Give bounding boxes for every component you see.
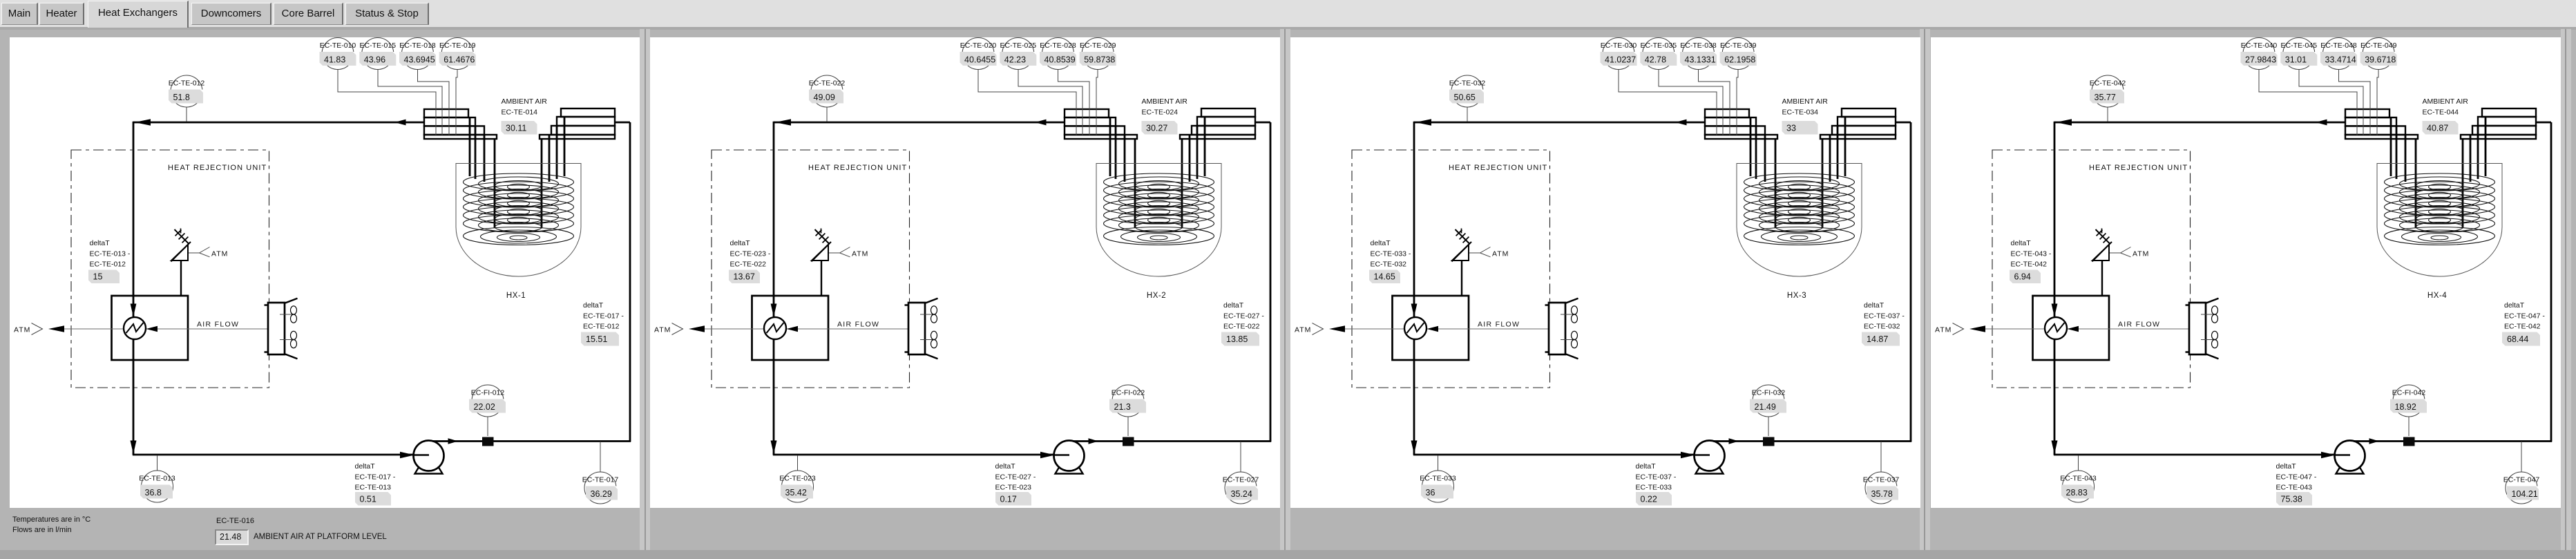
coil windings HX-3: [1744, 173, 1855, 245]
indicator deltaT bottom: [995, 462, 1036, 506]
svg-text:EC-TE-027 -: EC-TE-027 -: [995, 473, 1036, 482]
wire: tap to EC-TE-013: [157, 455, 158, 471]
sensor EC-TE-033: [1420, 471, 1456, 502]
svg-text:14.65: 14.65: [1374, 272, 1395, 282]
exchanger coil circle: [2045, 317, 2079, 339]
svg-text:6.94: 6.94: [2014, 272, 2031, 282]
svg-text:EC-TE-049: EC-TE-049: [2360, 41, 2397, 50]
svg-text:EC-TE-013: EC-TE-013: [355, 484, 392, 492]
svg-text:43.6945: 43.6945: [404, 55, 435, 65]
flow indicator EC-FI-022: [1109, 385, 1146, 417]
svg-text:EC-TE-034: EC-TE-034: [1782, 108, 1819, 117]
indicator deltaT bottom: [1636, 462, 1677, 506]
wire: tap to EC-TE-043: [2078, 455, 2079, 471]
node ATM exhaust (left): [1935, 323, 1985, 335]
heat rejection unit enclosure: [1352, 150, 1550, 388]
svg-text:EC-TE-028: EC-TE-028: [1040, 41, 1076, 50]
node ATM exhaust (left): [14, 323, 64, 335]
svg-text:AIR FLOW: AIR FLOW: [1478, 321, 1520, 329]
ambient air numeric control EC-TE-016: [215, 529, 249, 545]
svg-text:51.8: 51.8: [173, 93, 190, 102]
svg-text:40.8539: 40.8539: [1044, 55, 1076, 65]
right tube header manifold: [1180, 108, 1255, 139]
svg-text:EC-TE-022: EC-TE-022: [809, 79, 846, 88]
svg-text:42.23: 42.23: [1004, 55, 1026, 65]
sensor EC-TE-047: [2503, 472, 2540, 504]
svg-text:41.0237: 41.0237: [1605, 55, 1636, 65]
svg-text:EC-TE-013: EC-TE-013: [139, 475, 175, 483]
svg-text:EC-TE-047 -: EC-TE-047 -: [2504, 312, 2545, 321]
svg-text:EC-TE-023 -: EC-TE-023 -: [730, 250, 771, 258]
relief valve PSV: [171, 229, 191, 296]
svg-text:EC-TE-040: EC-TE-040: [2241, 41, 2278, 50]
svg-text:EC-TE-044: EC-TE-044: [2423, 108, 2459, 117]
node ATM vent (valve): [829, 247, 868, 258]
wire: bottom supply pipe: [2054, 452, 2336, 458]
fan F1: [2201, 306, 2218, 323]
node ATM exhaust (left): [654, 323, 705, 335]
coil windings HX-2: [1104, 173, 1214, 245]
svg-text:HEAT REJECTION UNIT: HEAT REJECTION UNIT: [2089, 164, 2188, 172]
svg-text:deltaT: deltaT: [90, 239, 111, 247]
wire: thermocouple probes into coil: [978, 70, 1098, 135]
svg-text:EC-TE-010: EC-TE-010: [320, 41, 356, 50]
wire: tap to EC-TE-037: [1880, 442, 1882, 472]
svg-text:30.11: 30.11: [506, 124, 526, 133]
fan F1: [1561, 306, 1578, 323]
relief valve PSV: [812, 229, 832, 296]
svg-text:HEAT REJECTION UNIT: HEAT REJECTION UNIT: [808, 164, 907, 172]
relief valve PSV: [2092, 229, 2112, 296]
svg-text:18.92: 18.92: [2395, 402, 2416, 412]
svg-text:27.9843: 27.9843: [2245, 55, 2276, 65]
svg-text:15: 15: [93, 272, 103, 282]
svg-text:14.87: 14.87: [1867, 334, 1888, 344]
sensor EC-TE-012: [169, 75, 205, 107]
svg-text:31.01: 31.01: [2285, 55, 2307, 65]
svg-text:EC-FI-022: EC-FI-022: [1112, 389, 1145, 397]
svg-text:75.38: 75.38: [2281, 495, 2302, 504]
indicator deltaT right: [1862, 301, 1905, 346]
indicator AMBIENT AIR EC-TE-034: [1782, 97, 1829, 135]
svg-text:21.49: 21.49: [1755, 402, 1776, 412]
sensor EC-TE-049: [2360, 38, 2397, 70]
sensor EC-TE-022: [809, 75, 846, 107]
indicator deltaT right: [581, 301, 624, 346]
svg-text:deltaT: deltaT: [1864, 301, 1885, 310]
wire: tap to EC-TE-022: [826, 107, 828, 122]
svg-text:40.87: 40.87: [2427, 124, 2448, 133]
wire: tap to EC-TE-033: [1438, 455, 1439, 471]
svg-text:36.8: 36.8: [145, 488, 162, 498]
indicator deltaT left: [1369, 239, 1411, 283]
flow indicator EC-FI-042: [2390, 385, 2427, 417]
heat rejection unit enclosure: [71, 150, 269, 388]
sensor EC-TE-040: [2241, 38, 2278, 70]
svg-text:0.51: 0.51: [360, 495, 376, 504]
wire: left header tubes into coil: [1110, 117, 1135, 228]
heat exchanger HX-3 shroud: [1737, 164, 1862, 301]
svg-text:EC-TE-043 -: EC-TE-043 -: [2011, 250, 2052, 258]
flow indicator EC-FI-032: [1750, 385, 1786, 417]
wire: tap to EC-TE-047: [2521, 442, 2522, 472]
svg-text:35.42: 35.42: [785, 488, 807, 498]
svg-text:33: 33: [1786, 124, 1796, 133]
wire: bottom supply pipe: [773, 452, 1055, 458]
svg-text:AMBIENT AIR: AMBIENT AIR: [2423, 97, 2469, 106]
svg-text:EC-TE-015: EC-TE-015: [360, 41, 397, 50]
sensor EC-TE-013: [139, 471, 175, 502]
flow element (black square): [482, 437, 494, 446]
svg-text:EC-TE-042: EC-TE-042: [2011, 260, 2048, 269]
wire: pump outlet pipe: [428, 438, 631, 444]
wire: bottom supply pipe: [133, 452, 414, 458]
indicator deltaT bottom: [2276, 462, 2317, 506]
fan unit louver box: [2186, 299, 2219, 359]
indicator deltaT right: [1221, 301, 1264, 346]
svg-text:EC-TE-043: EC-TE-043: [2060, 475, 2097, 483]
svg-text:EC-TE-035: EC-TE-035: [1641, 41, 1677, 50]
svg-text:EC-TE-033: EC-TE-033: [1420, 475, 1456, 483]
svg-text:ATM: ATM: [1935, 326, 1952, 334]
svg-text:deltaT: deltaT: [2504, 301, 2525, 310]
node ATM vent (valve): [2110, 247, 2149, 258]
svg-text:EC-TE-017 -: EC-TE-017 -: [583, 312, 624, 321]
wire: bottom supply pipe: [1413, 452, 1695, 458]
air heat exchanger box E1: [2033, 296, 2110, 360]
svg-text:35.77: 35.77: [2095, 93, 2116, 102]
indicator deltaT bottom: [355, 462, 396, 506]
svg-text:13.67: 13.67: [734, 272, 755, 282]
svg-text:EC-TE-037 -: EC-TE-037 -: [1636, 473, 1677, 482]
svg-text:deltaT: deltaT: [2276, 462, 2297, 471]
air flow line: [1345, 321, 1564, 330]
wire: thermocouple probes into coil: [338, 70, 457, 135]
sensor EC-TE-028: [1040, 38, 1076, 70]
svg-text:ATM: ATM: [14, 326, 30, 334]
wire: right riser pipe: [2550, 122, 2553, 442]
wire: pump outlet pipe: [1709, 438, 1911, 444]
svg-text:EC-TE-039: EC-TE-039: [1720, 41, 1757, 50]
svg-text:EC-TE-032: EC-TE-032: [1864, 323, 1900, 331]
wire: right header tubes into coil: [1822, 117, 1845, 228]
wire: top return pipe: [2054, 119, 2345, 125]
wire: right header connector: [2536, 122, 2551, 124]
svg-text:62.1958: 62.1958: [1724, 55, 1755, 65]
svg-text:EC-TE-025: EC-TE-025: [1000, 41, 1037, 50]
left tube header manifold: [2345, 109, 2418, 139]
svg-text:EC-TE-022: EC-TE-022: [1223, 323, 1260, 331]
svg-text:EC-TE-020: EC-TE-020: [960, 41, 997, 50]
sensor EC-TE-015: [359, 38, 396, 70]
svg-text:30.27: 30.27: [1146, 124, 1167, 133]
svg-text:AIR FLOW: AIR FLOW: [837, 321, 879, 329]
coil windings HX-4: [2385, 173, 2495, 245]
svg-text:EC-TE-032: EC-TE-032: [1449, 79, 1486, 88]
svg-text:EC-TE-023: EC-TE-023: [995, 484, 1032, 492]
svg-text:AMBIENT AIR: AMBIENT AIR: [502, 97, 548, 106]
heat rejection unit enclosure: [712, 150, 910, 388]
fan unit louver box: [1545, 299, 1578, 359]
svg-text:EC-TE-030: EC-TE-030: [1601, 41, 1637, 50]
svg-text:ATM: ATM: [1295, 326, 1311, 334]
sensor EC-TE-027: [1223, 472, 1259, 504]
svg-text:EC-TE-033: EC-TE-033: [1636, 484, 1672, 492]
svg-text:EC-TE-042: EC-TE-042: [2504, 323, 2541, 331]
svg-text:HX-4: HX-4: [2427, 292, 2447, 300]
svg-text:HEAT REJECTION UNIT: HEAT REJECTION UNIT: [1449, 164, 1547, 172]
wire: right header connector: [1896, 122, 1911, 124]
indicator deltaT left: [729, 239, 771, 283]
wire: left header tubes into coil: [1750, 117, 1775, 228]
right tube header manifold: [2461, 108, 2536, 139]
svg-text:EC-TE-037: EC-TE-037: [1863, 476, 1900, 484]
svg-text:28.83: 28.83: [2066, 488, 2088, 498]
right tube header manifold: [1820, 108, 1896, 139]
coil windings HX-1: [464, 173, 574, 245]
air heat exchanger box E1: [752, 296, 829, 360]
svg-text:13.85: 13.85: [1226, 334, 1248, 344]
svg-text:43.1331: 43.1331: [1685, 55, 1716, 65]
wire: left downcomer pipe: [131, 122, 137, 455]
wire: left downcomer pipe: [771, 122, 777, 455]
pump P1: [414, 441, 444, 474]
air heat exchanger box E1: [1393, 296, 1469, 360]
svg-text:deltaT: deltaT: [1636, 462, 1657, 471]
svg-text:EC-TE-042: EC-TE-042: [2090, 79, 2126, 88]
wire: tap to EC-FI-042: [2408, 417, 2410, 436]
svg-text:ATM: ATM: [211, 250, 228, 258]
svg-text:HX-3: HX-3: [1787, 292, 1806, 300]
sensor EC-TE-023: [779, 471, 816, 502]
svg-text:42.78: 42.78: [1645, 55, 1666, 65]
exchanger coil circle: [1404, 317, 1438, 339]
sensor EC-TE-045: [2280, 38, 2317, 70]
svg-text:EC-TE-012: EC-TE-012: [90, 260, 126, 269]
svg-text:68.44: 68.44: [2507, 334, 2528, 344]
svg-text:35.78: 35.78: [1871, 489, 1893, 499]
left tube header manifold: [424, 109, 497, 139]
svg-text:EC-TE-038: EC-TE-038: [1680, 41, 1717, 50]
wire: top return pipe: [1414, 119, 1705, 125]
wire: tap to EC-TE-032: [1467, 107, 1468, 122]
node ATM vent (valve): [1469, 247, 1509, 258]
exchanger coil circle: [124, 317, 158, 339]
heat exchanger HX-2 shroud: [1096, 164, 1221, 301]
svg-text:AIR FLOW: AIR FLOW: [2118, 321, 2160, 329]
svg-text:EC-TE-017: EC-TE-017: [582, 476, 619, 484]
sensor EC-TE-025: [1000, 38, 1036, 70]
svg-text:deltaT: deltaT: [1223, 301, 1244, 310]
sensor EC-TE-039: [1720, 38, 1757, 70]
svg-text:EC-TE-018: EC-TE-018: [399, 41, 436, 50]
svg-text:ATM: ATM: [654, 326, 671, 334]
svg-text:0.22: 0.22: [1641, 495, 1657, 504]
svg-text:EC-TE-032: EC-TE-032: [1371, 260, 1407, 269]
svg-text:HX-1: HX-1: [506, 292, 526, 300]
indicator deltaT left: [2010, 239, 2052, 283]
fan unit louver box: [905, 299, 938, 359]
sensor EC-TE-017: [582, 472, 619, 504]
svg-text:43.96: 43.96: [364, 55, 385, 65]
svg-text:EC-FI-042: EC-FI-042: [2392, 389, 2426, 397]
wire: left downcomer pipe: [2052, 122, 2058, 455]
fan F2: [920, 331, 937, 348]
svg-text:36: 36: [1426, 488, 1435, 498]
sensor EC-TE-010: [320, 38, 356, 70]
svg-text:deltaT: deltaT: [2011, 239, 2032, 247]
fan F2: [2201, 331, 2218, 348]
svg-text:EC-TE-019: EC-TE-019: [439, 41, 476, 50]
wire: thermocouple probes into coil: [1619, 70, 1738, 135]
wire: tap to EC-TE-023: [797, 455, 799, 471]
svg-text:EC-TE-033 -: EC-TE-033 -: [1371, 250, 1411, 258]
svg-text:EC-TE-029: EC-TE-029: [1080, 41, 1116, 50]
pump P1: [1695, 441, 1725, 474]
wire: pump outlet pipe: [1069, 438, 1271, 444]
svg-text:15.51: 15.51: [586, 334, 607, 344]
left tube header manifold: [1705, 109, 1777, 139]
svg-text:EC-TE-012: EC-TE-012: [583, 323, 620, 331]
wire: tap to EC-TE-017: [600, 442, 601, 472]
svg-text:EC-FI-032: EC-FI-032: [1752, 389, 1786, 397]
svg-text:EC-TE-027: EC-TE-027: [1223, 476, 1259, 484]
svg-text:40.6455: 40.6455: [964, 55, 995, 65]
svg-text:EC-TE-045: EC-TE-045: [2281, 41, 2318, 50]
panel dividers: [640, 29, 650, 556]
wire: right riser pipe: [1910, 122, 1912, 442]
svg-text:0.17: 0.17: [1000, 495, 1017, 504]
heat exchanger HX-4 shroud: [2377, 164, 2502, 301]
svg-text:104.21: 104.21: [2512, 489, 2538, 499]
wire: right riser pipe: [1270, 122, 1272, 442]
sensor EC-TE-018: [399, 38, 436, 70]
sensor EC-TE-038: [1680, 38, 1717, 70]
indicator AMBIENT AIR EC-TE-044: [2423, 97, 2469, 135]
air flow line: [705, 321, 924, 330]
svg-text:59.8738: 59.8738: [1084, 55, 1115, 65]
sensor EC-TE-042: [2090, 75, 2126, 107]
wire: tap to EC-FI-012: [487, 417, 488, 436]
sensor EC-TE-032: [1449, 75, 1486, 107]
svg-text:36.29: 36.29: [591, 489, 612, 499]
air heat exchanger box E1: [112, 296, 189, 360]
svg-text:EC-TE-024: EC-TE-024: [1142, 108, 1179, 117]
fan unit louver box: [265, 299, 298, 359]
svg-text:deltaT: deltaT: [583, 301, 604, 310]
svg-text:49.09: 49.09: [814, 93, 835, 102]
node ATM exhaust (left): [1295, 323, 1345, 335]
svg-text:33.4714: 33.4714: [2325, 55, 2356, 65]
sensor EC-TE-037: [1863, 472, 1900, 504]
svg-text:AMBIENT AIR: AMBIENT AIR: [1782, 97, 1829, 106]
wire: right header connector: [1255, 122, 1270, 124]
wire: left header tubes into coil: [2391, 117, 2416, 228]
sensor EC-TE-043: [2060, 471, 2097, 502]
svg-text:HEAT REJECTION UNIT: HEAT REJECTION UNIT: [168, 164, 267, 172]
fan F1: [920, 306, 937, 323]
wire: tap to EC-TE-042: [2107, 107, 2108, 122]
air flow line: [64, 321, 283, 330]
sensor EC-TE-029: [1080, 38, 1116, 70]
flow element (black square): [1763, 437, 1775, 446]
sensor EC-TE-020: [960, 38, 997, 70]
footnotes: [12, 515, 90, 524]
right tube header manifold: [540, 108, 615, 139]
wire: left downcomer pipe: [1411, 122, 1418, 455]
left tube header manifold: [1065, 109, 1137, 139]
sensor EC-TE-048: [2320, 38, 2357, 70]
air flow line: [1985, 321, 2204, 330]
wire: right header connector: [615, 122, 630, 124]
wire: top return pipe: [133, 119, 424, 125]
fan F1: [280, 306, 297, 323]
svg-text:50.65: 50.65: [1454, 93, 1476, 102]
svg-text:EC-TE-023: EC-TE-023: [779, 475, 816, 483]
svg-text:EC-TE-043: EC-TE-043: [2276, 484, 2313, 492]
svg-text:EC-TE-012: EC-TE-012: [169, 79, 205, 88]
svg-text:EC-TE-022: EC-TE-022: [730, 260, 767, 269]
svg-text:EC-FI-012: EC-FI-012: [471, 389, 505, 397]
svg-text:AMBIENT AIR: AMBIENT AIR: [1142, 97, 1188, 106]
flow element (black square): [1123, 437, 1134, 446]
wire: right header tubes into coil: [1182, 117, 1205, 228]
svg-text:deltaT: deltaT: [355, 462, 376, 471]
tab strip: [0, 0, 2576, 27]
wire: tap to EC-FI-032: [1768, 417, 1769, 436]
wire: right header tubes into coil: [542, 117, 564, 228]
svg-text:EC-TE-014: EC-TE-014: [502, 108, 538, 117]
wire: tap to EC-TE-012: [186, 107, 187, 122]
wire: top return pipe: [774, 119, 1065, 125]
heat rejection unit enclosure: [1992, 150, 2191, 388]
svg-text:HX-2: HX-2: [1147, 292, 1166, 300]
svg-text:61.4676: 61.4676: [443, 55, 475, 65]
relief valve PSV: [1452, 229, 1472, 296]
indicator deltaT right: [2502, 301, 2545, 346]
svg-text:35.24: 35.24: [1231, 489, 1252, 499]
svg-text:AIR FLOW: AIR FLOW: [197, 321, 239, 329]
node ATM vent (valve): [189, 247, 228, 258]
fan F2: [1561, 331, 1578, 348]
bottom darker band: [0, 550, 2576, 559]
wire: pump outlet pipe: [2349, 438, 2552, 444]
wire: tap to EC-TE-027: [1240, 442, 1241, 472]
svg-text:deltaT: deltaT: [995, 462, 1016, 471]
svg-text:EC-TE-027 -: EC-TE-027 -: [1223, 312, 1264, 321]
svg-text:EC-TE-017 -: EC-TE-017 -: [355, 473, 396, 482]
sensor EC-TE-019: [439, 38, 476, 70]
wire: right riser pipe: [629, 122, 631, 442]
pump P1: [1054, 441, 1085, 474]
wire: thermocouple probes into coil: [2259, 70, 2378, 135]
svg-text:ATM: ATM: [852, 250, 868, 258]
svg-text:21.3: 21.3: [1114, 402, 1131, 412]
wire: tap to EC-FI-022: [1127, 417, 1129, 436]
sensor EC-TE-035: [1640, 38, 1677, 70]
svg-text:EC-TE-037 -: EC-TE-037 -: [1864, 312, 1905, 321]
svg-text:deltaT: deltaT: [1371, 239, 1391, 247]
indicator deltaT left: [88, 239, 131, 283]
svg-text:ATM: ATM: [1492, 250, 1509, 258]
wire: left header tubes into coil: [470, 117, 495, 228]
svg-text:EC-TE-047 -: EC-TE-047 -: [2276, 473, 2317, 482]
svg-text:22.02: 22.02: [474, 402, 495, 412]
svg-text:ATM: ATM: [2133, 250, 2149, 258]
flow element (black square): [2403, 437, 2415, 446]
exchanger coil circle: [764, 317, 798, 339]
indicator AMBIENT AIR EC-TE-014: [502, 97, 548, 135]
